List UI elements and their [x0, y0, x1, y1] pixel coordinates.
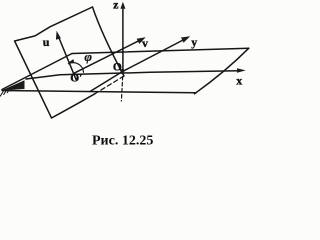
svg-text:O′: O′	[70, 73, 82, 85]
svg-text:z: z	[113, 0, 119, 12]
svg-text:v: v	[142, 36, 148, 50]
svg-text:u: u	[43, 35, 50, 49]
svg-text:y: y	[191, 35, 197, 49]
svg-text:O: O	[113, 62, 122, 74]
svg-text:φ: φ	[84, 49, 92, 64]
svg-text:x: x	[236, 74, 242, 88]
svg-text:Рис. 12.25: Рис. 12.25	[92, 134, 153, 149]
